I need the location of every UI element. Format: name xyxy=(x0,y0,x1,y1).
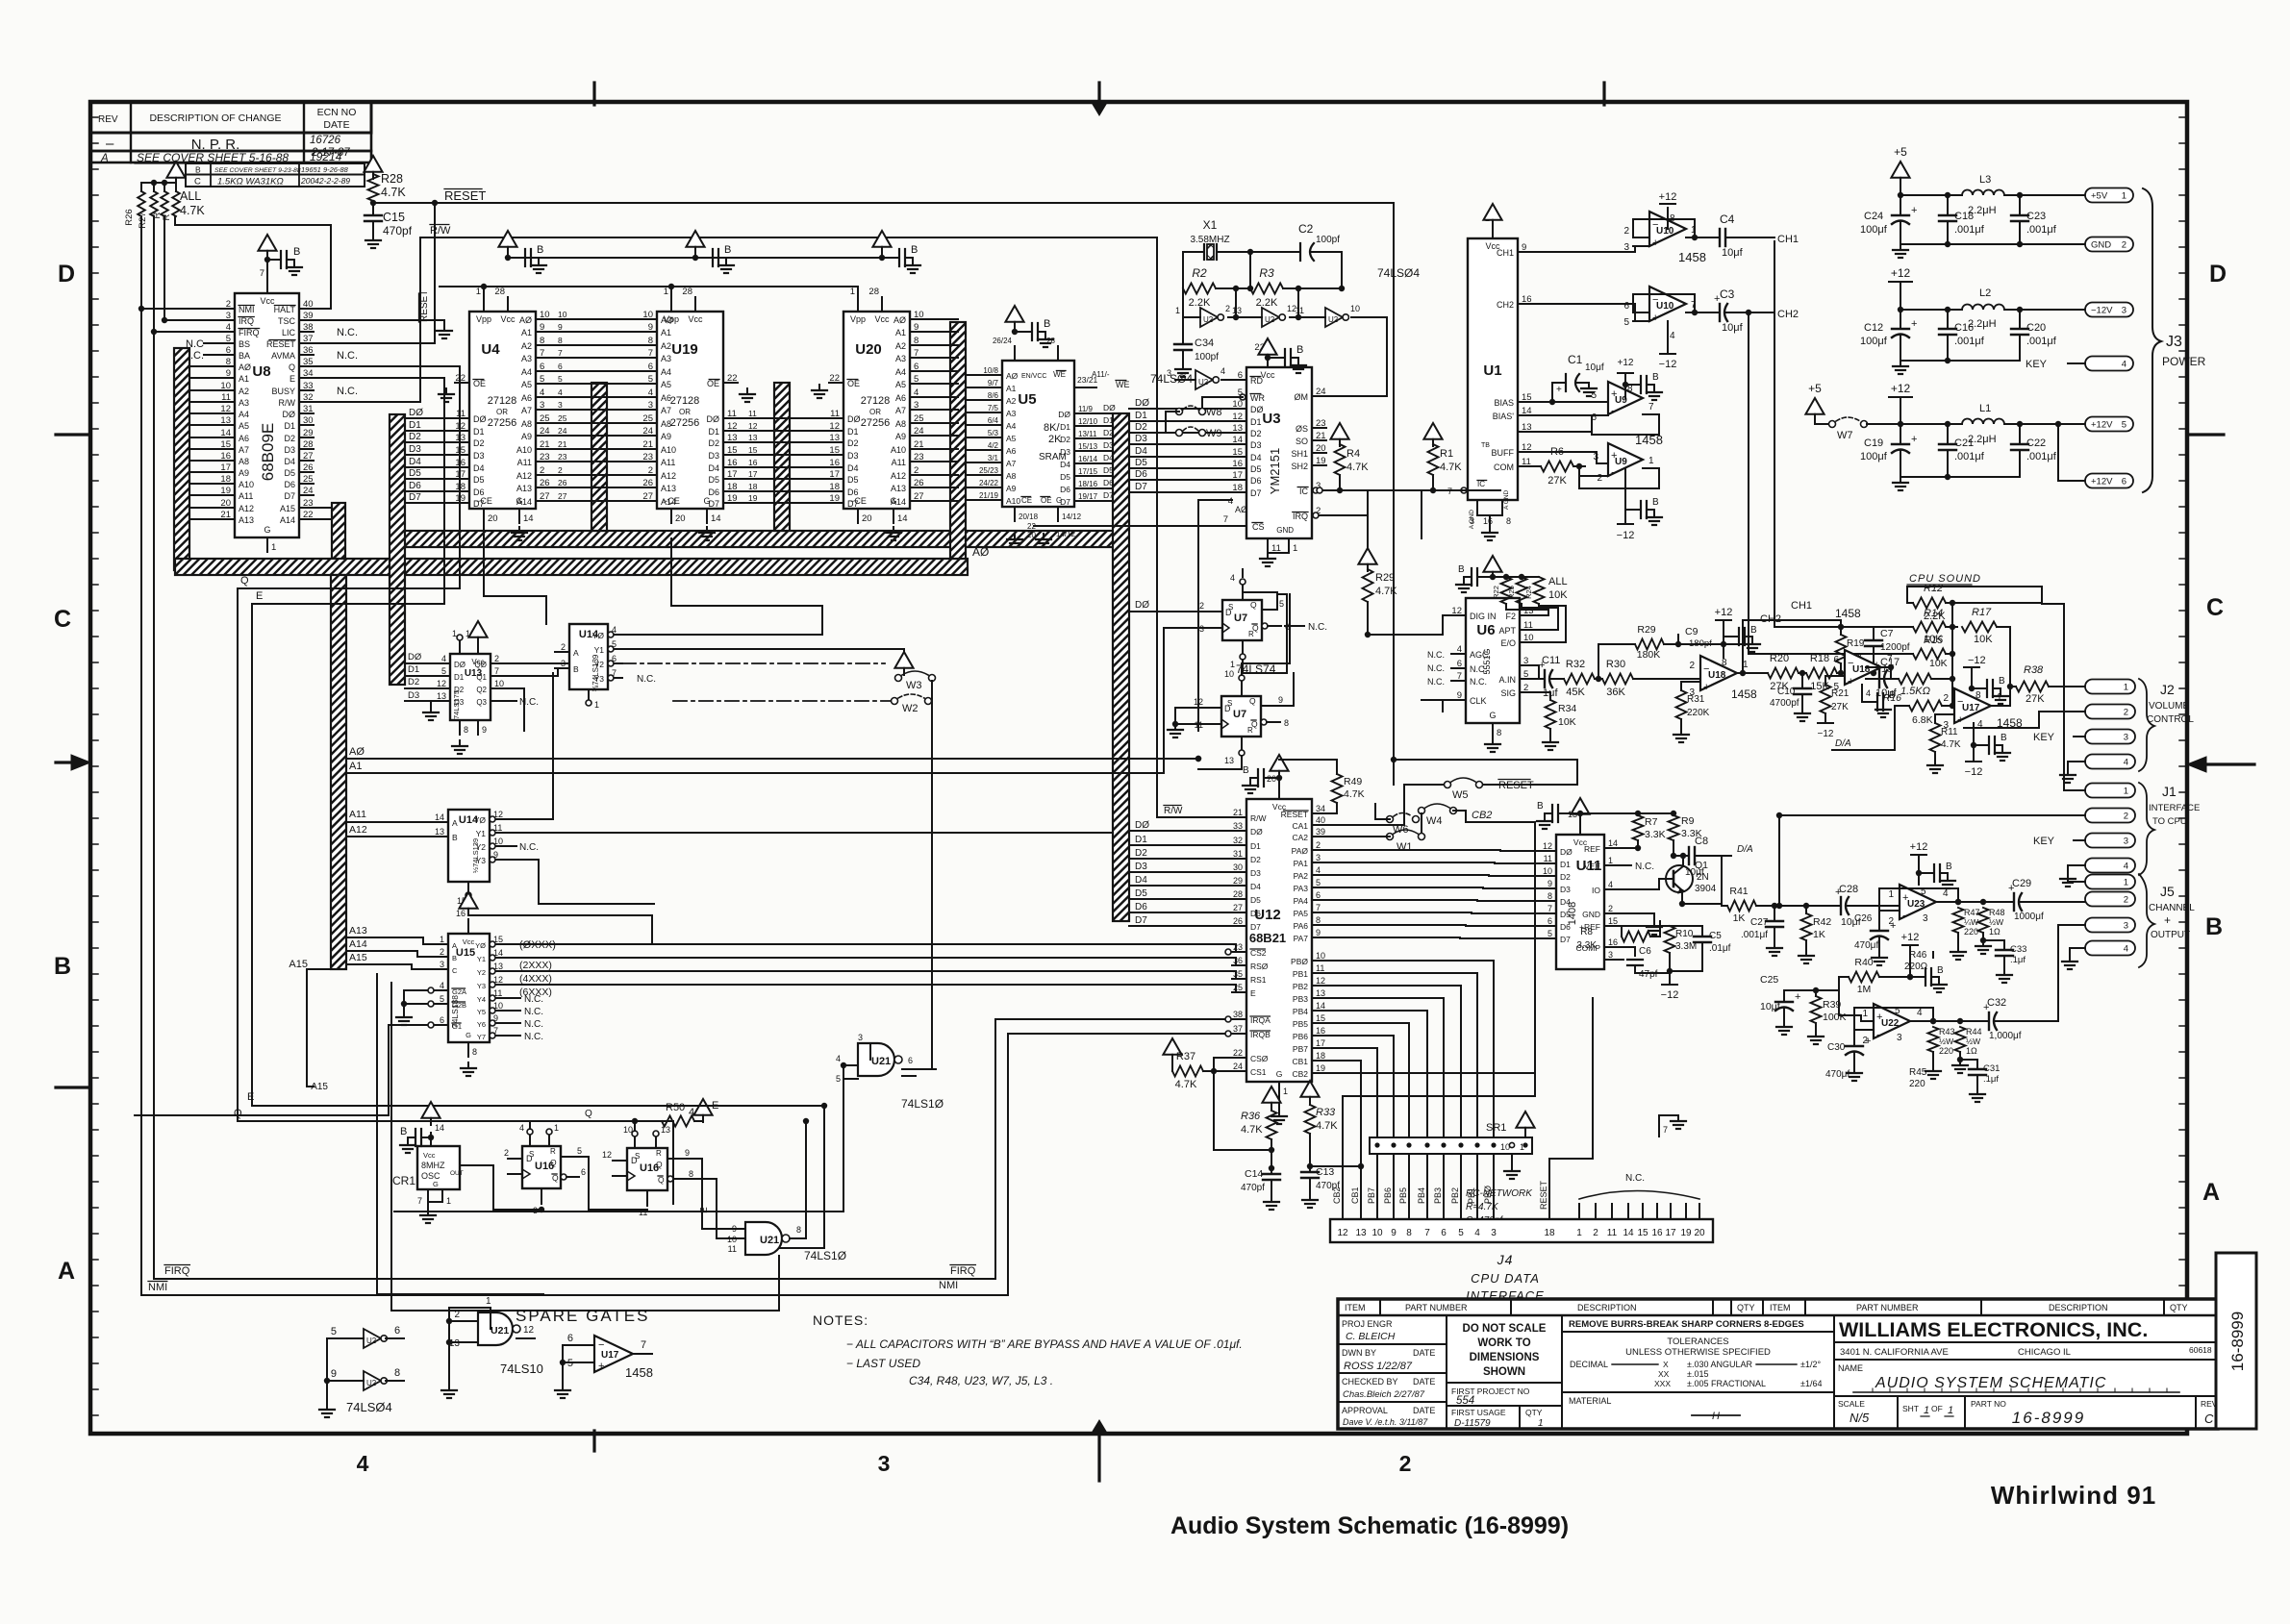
svg-text:5: 5 xyxy=(226,334,231,344)
svg-text:27: 27 xyxy=(558,491,567,501)
svg-text:+: + xyxy=(1795,991,1800,1003)
svg-text:2: 2 xyxy=(1399,1451,1412,1476)
wire A11 to U14b xyxy=(346,809,434,822)
svg-text:C10: C10 xyxy=(1777,687,1796,697)
svg-text:W7: W7 xyxy=(1837,430,1853,441)
svg-text:±.030 ANGULAR: ±.030 ANGULAR xyxy=(1687,1360,1752,1369)
svg-text:1K: 1K xyxy=(1813,929,1825,940)
wire U7a R xyxy=(1243,594,1287,673)
wire U7b q out xyxy=(1276,673,1294,706)
svg-text:4: 4 xyxy=(1316,865,1321,875)
svg-text:R42: R42 xyxy=(1813,916,1831,928)
U7a pins xyxy=(1199,573,1290,669)
svg-text:7: 7 xyxy=(494,666,499,676)
U20 bypass ground xyxy=(905,260,920,273)
svg-text:SPARE GATES: SPARE GATES xyxy=(516,1307,649,1325)
svg-text:.001μf: .001μf xyxy=(2026,224,2057,236)
resistor R22 xyxy=(1492,574,1539,604)
frame zone tick top xyxy=(594,83,1604,105)
svg-text:BIAS': BIAS' xyxy=(1493,412,1515,421)
svg-text:D6: D6 xyxy=(1060,485,1070,494)
svg-text:16: 16 xyxy=(1608,937,1618,947)
svg-text:2: 2 xyxy=(1689,661,1695,671)
svg-text:11: 11 xyxy=(456,409,466,419)
svg-text:D6: D6 xyxy=(1135,902,1147,912)
svg-text:1458: 1458 xyxy=(1678,250,1706,264)
svg-text:10K: 10K xyxy=(1974,634,1993,645)
inverter U2e xyxy=(1296,304,1360,327)
svg-text:10μf: 10μf xyxy=(1585,362,1604,373)
svg-text:APT: APT xyxy=(1498,626,1516,636)
wire CH1 down xyxy=(1774,241,1775,615)
svg-text:3/1: 3/1 xyxy=(988,454,999,462)
svg-text:13/11: 13/11 xyxy=(1078,430,1097,438)
svg-text:R4: R4 xyxy=(1346,448,1360,460)
svg-text:Vpp: Vpp xyxy=(850,314,866,324)
svg-text:½W: ½W xyxy=(1989,917,2003,927)
resistor R16 xyxy=(1883,679,1955,726)
svg-text:D6: D6 xyxy=(1250,476,1262,486)
connector J2 pin2 xyxy=(2085,705,2135,719)
U11 vcc rail ext xyxy=(1580,811,1676,816)
svg-text:A4: A4 xyxy=(895,367,906,377)
inverter U2c xyxy=(1175,304,1230,327)
capacitor C20 xyxy=(2011,310,2057,361)
label 74LS74 xyxy=(1236,662,1276,676)
svg-text:12: 12 xyxy=(1543,841,1552,851)
svg-text:D5: D5 xyxy=(708,475,719,485)
svg-text:12: 12 xyxy=(437,679,446,688)
svg-text:DØ: DØ xyxy=(1135,820,1149,831)
CR1 vcc pin xyxy=(428,1123,444,1146)
svg-text:W2: W2 xyxy=(902,703,919,714)
svg-text:23: 23 xyxy=(914,452,924,462)
svg-text:8: 8 xyxy=(1548,891,1552,901)
capacitor C12 xyxy=(1860,310,1917,361)
SR1 vcc xyxy=(1516,1112,1534,1137)
svg-text:A4: A4 xyxy=(1006,421,1017,431)
svg-text:J1: J1 xyxy=(2162,784,2177,799)
wire PB6 to J4 xyxy=(1326,1036,1394,1219)
svg-text:11: 11 xyxy=(1316,963,1324,973)
svg-text:Vcc: Vcc xyxy=(463,937,475,946)
svg-text:R=4.7K: R=4.7K xyxy=(1466,1202,1499,1212)
svg-text:3: 3 xyxy=(648,400,653,411)
svg-text:20: 20 xyxy=(1316,443,1326,454)
vcc +5 W7 xyxy=(1805,382,1829,424)
svg-text:C13: C13 xyxy=(1316,1166,1334,1178)
resistor R31 xyxy=(1676,682,1710,729)
svg-text:N.C.: N.C. xyxy=(1427,650,1445,660)
svg-text:6: 6 xyxy=(394,1325,400,1337)
svg-text:R11: R11 xyxy=(1941,727,1958,737)
svg-text:W4: W4 xyxy=(1426,815,1443,827)
svg-text:B: B xyxy=(1044,318,1050,330)
svg-text:25: 25 xyxy=(1233,983,1243,992)
U4 vcc xyxy=(498,231,525,261)
wire RESET to W5 xyxy=(1391,757,1397,785)
wire FIRQ to U8 xyxy=(154,331,220,333)
svg-text:B: B xyxy=(2205,913,2223,940)
svg-text:A8: A8 xyxy=(895,419,906,429)
U19 vcc xyxy=(686,231,713,261)
svg-text:11/9: 11/9 xyxy=(1078,405,1094,413)
wire J1 pin2 xyxy=(1776,812,2085,818)
svg-text:14: 14 xyxy=(897,513,908,524)
svg-text:Chas.Bleich 2/27/87: Chas.Bleich 2/27/87 xyxy=(1343,1389,1425,1400)
svg-text:A9: A9 xyxy=(1006,484,1017,493)
svg-text:D2: D2 xyxy=(473,438,485,448)
U23 pins xyxy=(1887,887,1958,927)
U17 pins xyxy=(1943,690,2010,731)
resistor R43 xyxy=(1925,1018,1955,1079)
svg-text:24: 24 xyxy=(558,426,567,436)
svg-text:2: 2 xyxy=(1593,1228,1598,1238)
svg-text:470pf: 470pf xyxy=(1241,1183,1265,1193)
wire Q loop xyxy=(234,366,673,1204)
svg-text:U23: U23 xyxy=(1907,899,1925,910)
svg-text:C: C xyxy=(194,177,201,187)
J2 brace xyxy=(2139,679,2154,771)
svg-text:1: 1 xyxy=(1576,1228,1582,1238)
svg-text:FIRQ: FIRQ xyxy=(950,1265,976,1277)
wire comp pin3 xyxy=(1619,959,1623,961)
svg-text:220: 220 xyxy=(1964,927,1978,937)
wire R36 link xyxy=(1214,1147,1274,1153)
connector J5 pin1 xyxy=(2085,875,2135,889)
U5 bypass ground xyxy=(1038,334,1053,347)
capacitor C29 xyxy=(1983,878,2085,922)
svg-text:ALL: ALL xyxy=(1548,576,1568,587)
svg-text:D5: D5 xyxy=(1135,458,1147,468)
wire U22 fb xyxy=(1854,1008,1936,1030)
svg-text:A9: A9 xyxy=(895,432,906,441)
decoder U15 xyxy=(434,909,504,1057)
wire Q1 emitter xyxy=(1679,856,1722,907)
svg-text:D5: D5 xyxy=(1250,895,1261,905)
svg-text:11: 11 xyxy=(221,392,231,403)
svg-text:16-8999: 16-8999 xyxy=(2012,1409,2085,1427)
U4 bypass cap xyxy=(525,244,543,266)
svg-text:W8: W8 xyxy=(1206,407,1222,418)
U3 bypass cap xyxy=(1285,344,1303,366)
svg-text:½W: ½W xyxy=(1939,1037,1953,1046)
svg-text:N.C.: N.C. xyxy=(1427,663,1445,673)
svg-text:+12: +12 xyxy=(1901,932,1920,943)
svg-text:10: 10 xyxy=(1371,1228,1383,1238)
wire IRQ pullup xyxy=(162,216,167,323)
title approval xyxy=(1342,1406,1435,1427)
svg-text:A: A xyxy=(452,818,458,828)
jumper W3 xyxy=(895,671,936,691)
svg-text:2: 2 xyxy=(540,465,544,476)
svg-text:4: 4 xyxy=(1228,496,1233,507)
svg-text:R41: R41 xyxy=(1729,886,1748,897)
svg-text:B: B xyxy=(911,244,918,256)
svg-text:13: 13 xyxy=(1522,422,1532,433)
svg-text:AVMA: AVMA xyxy=(271,351,295,361)
wire U14b pin15 xyxy=(468,898,652,944)
wire Q top rail xyxy=(530,1109,662,1131)
svg-text:5: 5 xyxy=(1548,929,1552,938)
svg-text:R6: R6 xyxy=(1550,446,1564,458)
svg-text:10: 10 xyxy=(558,310,567,319)
U21 osc label xyxy=(804,1249,846,1262)
wire sig from U6 xyxy=(1520,678,1539,680)
svg-text:+12: +12 xyxy=(1891,266,1911,280)
svg-text:.01μf: .01μf xyxy=(1709,943,1731,954)
svg-text:B: B xyxy=(1537,801,1544,812)
svg-text:D1: D1 xyxy=(1250,841,1261,851)
svg-text:G: G xyxy=(1489,711,1496,720)
U6 vcc xyxy=(1477,556,1502,580)
svg-text:15: 15 xyxy=(748,445,758,455)
svg-text:A GND: A GND xyxy=(1503,489,1510,510)
svg-text:7: 7 xyxy=(1548,904,1552,913)
svg-text:D2: D2 xyxy=(1135,848,1147,859)
svg-text:4: 4 xyxy=(1474,1228,1480,1238)
svg-text:14/12: 14/12 xyxy=(1062,512,1082,521)
svg-text:38: 38 xyxy=(303,322,314,333)
svg-text:OR: OR xyxy=(679,408,691,416)
svg-text:U7: U7 xyxy=(1233,709,1246,720)
svg-text:14: 14 xyxy=(1522,406,1532,416)
wire U7b R xyxy=(1195,756,1242,769)
U10a +12 xyxy=(1659,191,1677,219)
svg-text:C21: C21 xyxy=(1954,437,1974,449)
capacitor C24 xyxy=(1860,195,1917,244)
svg-text:B: B xyxy=(1889,690,1896,701)
capacitor C7 xyxy=(1841,627,1910,676)
label A0 bus xyxy=(972,545,989,559)
wire IRQ to R29 xyxy=(1326,490,1368,548)
svg-text:U3: U3 xyxy=(1262,411,1280,427)
svg-text:GND: GND xyxy=(1582,910,1600,919)
svg-text:19: 19 xyxy=(748,493,758,503)
svg-text:R/W: R/W xyxy=(279,398,296,408)
svg-text:D1: D1 xyxy=(708,427,719,437)
svg-text:16: 16 xyxy=(829,458,840,468)
svg-text:7: 7 xyxy=(540,348,544,359)
wire U14b Y0 long xyxy=(496,673,553,819)
svg-text:4: 4 xyxy=(1220,366,1225,376)
svg-text:1458: 1458 xyxy=(1835,607,1861,620)
svg-text:12: 12 xyxy=(829,421,840,432)
U14a bottom pin xyxy=(586,689,599,710)
wire C1 to bias xyxy=(1549,383,1555,405)
svg-text:3: 3 xyxy=(2122,306,2126,316)
svg-text:D1: D1 xyxy=(1103,415,1114,425)
svg-text:16: 16 xyxy=(1522,294,1532,305)
svg-text:3: 3 xyxy=(858,1033,863,1042)
svg-text:+12: +12 xyxy=(1910,841,1928,853)
svg-text:8: 8 xyxy=(648,336,653,346)
svg-text:A2: A2 xyxy=(239,387,249,396)
resistor R13 xyxy=(1875,663,1952,697)
svg-text:U2: U2 xyxy=(366,1379,377,1387)
svg-text:4.7K: 4.7K xyxy=(1316,1120,1338,1132)
svg-text:8: 8 xyxy=(1975,690,1981,701)
svg-text:D4: D4 xyxy=(284,457,295,466)
svg-text:W3: W3 xyxy=(906,680,922,691)
svg-text:11: 11 xyxy=(728,1244,737,1254)
svg-text:13: 13 xyxy=(727,433,738,443)
svg-text:C1: C1 xyxy=(1568,353,1583,366)
U8 bypass cap B xyxy=(281,246,300,268)
svg-text:R/W: R/W xyxy=(430,225,451,237)
svg-text:25: 25 xyxy=(540,413,550,424)
svg-text:6: 6 xyxy=(1457,659,1462,669)
decoder U14a xyxy=(555,624,622,691)
svg-text:PB4: PB4 xyxy=(1417,1187,1426,1204)
svg-text:MATERIAL: MATERIAL xyxy=(1569,1396,1611,1406)
wire FIRQ run xyxy=(154,1019,1231,1279)
svg-text:U7: U7 xyxy=(1234,612,1247,624)
svg-text:A9: A9 xyxy=(239,468,249,478)
wire CS0 xyxy=(1214,1058,1232,1071)
svg-text:A6: A6 xyxy=(521,393,532,403)
svg-text:16: 16 xyxy=(1232,459,1243,469)
svg-text:X: X xyxy=(1663,1360,1669,1369)
svg-text:EN/VCC: EN/VCC xyxy=(1021,373,1046,380)
svg-text:W5: W5 xyxy=(1452,789,1469,801)
svg-text:2: 2 xyxy=(558,465,563,475)
label J3 POWER xyxy=(2162,334,2206,368)
svg-text:ITEM: ITEM xyxy=(1345,1303,1366,1312)
svg-text:4: 4 xyxy=(357,1451,369,1476)
svg-text:NMI: NMI xyxy=(939,1280,958,1291)
wire E to U21 xyxy=(630,1106,824,1248)
svg-text:B: B xyxy=(1458,564,1465,575)
resistor R10 xyxy=(1619,926,1697,974)
svg-text:6/4: 6/4 xyxy=(988,416,999,425)
frame zone mark right xyxy=(2187,435,2254,772)
svg-text:2: 2 xyxy=(2124,708,2128,718)
svg-text:4.7K: 4.7K xyxy=(1346,462,1369,473)
wire CH2 to R15 xyxy=(1749,627,1913,654)
svg-text:IRQ: IRQ xyxy=(1293,512,1308,521)
svg-text:B: B xyxy=(1750,625,1757,636)
svg-text:− LAST USED: − LAST USED xyxy=(846,1357,920,1370)
J5 brace xyxy=(2139,874,2154,967)
R21 minus12 xyxy=(1818,723,1834,739)
title first project xyxy=(1447,1387,1562,1407)
svg-text:−: − xyxy=(1703,663,1709,675)
svg-text:21: 21 xyxy=(642,439,653,450)
svg-text:1458: 1458 xyxy=(1731,687,1757,701)
svg-text:C9: C9 xyxy=(1685,626,1699,637)
svg-text:D2: D2 xyxy=(708,438,719,448)
wire CH2 U1 to opamp xyxy=(1532,304,1649,321)
svg-text:CS1: CS1 xyxy=(1250,1067,1267,1077)
wire W2 left dashdot xyxy=(673,700,891,702)
svg-text:CHICAGO IL: CHICAGO IL xyxy=(2018,1347,2071,1358)
svg-text:100pf: 100pf xyxy=(1195,352,1219,362)
svg-text:U14: U14 xyxy=(579,629,599,640)
svg-text:Vcc: Vcc xyxy=(1573,837,1588,847)
label 74LS04 spare xyxy=(346,1400,392,1414)
svg-text:C3: C3 xyxy=(1720,287,1735,301)
svg-text:4.7K: 4.7K xyxy=(1175,1079,1197,1090)
svg-text:CB2: CB2 xyxy=(1292,1069,1308,1079)
label 2XXX xyxy=(519,960,552,971)
svg-text:C20: C20 xyxy=(2026,322,2046,334)
wire U18b out xyxy=(1866,664,1894,679)
svg-text:D4: D4 xyxy=(1103,453,1114,462)
svg-text:A11: A11 xyxy=(349,809,366,820)
opamp U10b xyxy=(1649,287,1686,324)
svg-text:5: 5 xyxy=(1316,878,1321,887)
opamp U9a xyxy=(1608,382,1643,417)
wire RESET right drop xyxy=(1393,203,1395,760)
svg-text:220: 220 xyxy=(1909,1079,1925,1089)
svg-text:17: 17 xyxy=(1316,1038,1325,1048)
svg-text:D2: D2 xyxy=(1060,435,1070,444)
svg-text:27256: 27256 xyxy=(861,417,891,429)
opamp U18a xyxy=(1700,656,1737,693)
svg-text:AØ: AØ xyxy=(519,315,532,325)
svg-text:25: 25 xyxy=(914,413,924,424)
svg-text:4: 4 xyxy=(540,387,544,398)
resistor R49 xyxy=(1279,760,1365,813)
U14a output bubbles xyxy=(608,632,614,681)
svg-text:2: 2 xyxy=(561,642,566,652)
jumper W1 xyxy=(1387,830,1425,853)
svg-text:2: 2 xyxy=(226,299,231,310)
bus wire A15 xyxy=(314,507,332,509)
svg-text:C11: C11 xyxy=(1542,655,1560,666)
svg-text:8: 8 xyxy=(394,1367,400,1379)
label CH2 mid xyxy=(1760,613,1781,625)
svg-text:CB1: CB1 xyxy=(1350,1187,1360,1204)
svg-text:9: 9 xyxy=(1316,928,1321,937)
svg-text:6: 6 xyxy=(648,362,653,372)
svg-text:D3: D3 xyxy=(1135,862,1147,872)
capacitor C25 xyxy=(1760,974,1800,1035)
CR1 vcc arrow xyxy=(421,1102,440,1125)
pia U12 68B21 xyxy=(1232,774,1326,1096)
svg-text:13: 13 xyxy=(1316,988,1325,998)
svg-text:R: R xyxy=(1248,630,1254,638)
wire RESET from U8 pin37 xyxy=(314,203,435,343)
svg-text:74LS175: 74LS175 xyxy=(452,690,461,719)
U19 bypass ground xyxy=(718,260,734,273)
R31 ground xyxy=(1673,729,1689,742)
svg-text:A12: A12 xyxy=(239,504,254,513)
svg-text:+: + xyxy=(1848,676,1853,687)
svg-text:3: 3 xyxy=(1593,452,1598,462)
wire U16b qbar xyxy=(687,1179,745,1238)
svg-text:U15: U15 xyxy=(456,947,475,959)
svg-text:39: 39 xyxy=(303,311,314,321)
svg-text:19: 19 xyxy=(1316,1063,1325,1073)
svg-text:1408: 1408 xyxy=(1567,902,1578,925)
svg-text:1: 1 xyxy=(1648,456,1654,466)
svg-text:Vcc: Vcc xyxy=(423,1151,436,1160)
svg-text:3.3K: 3.3K xyxy=(1576,940,1597,951)
svg-text:Q: Q xyxy=(289,362,295,372)
interface chip U1 xyxy=(1468,213,1532,500)
svg-text:6: 6 xyxy=(440,1015,444,1025)
wire U21 in E xyxy=(843,1079,844,1106)
svg-text:A12: A12 xyxy=(516,471,532,481)
label NOTES xyxy=(813,1312,868,1328)
U3 ground xyxy=(1260,538,1289,566)
svg-text:N.C.: N.C. xyxy=(524,1032,543,1042)
U8 bypass ground xyxy=(287,262,302,275)
svg-text:34: 34 xyxy=(303,368,314,379)
svg-text:Y1: Y1 xyxy=(477,955,486,963)
